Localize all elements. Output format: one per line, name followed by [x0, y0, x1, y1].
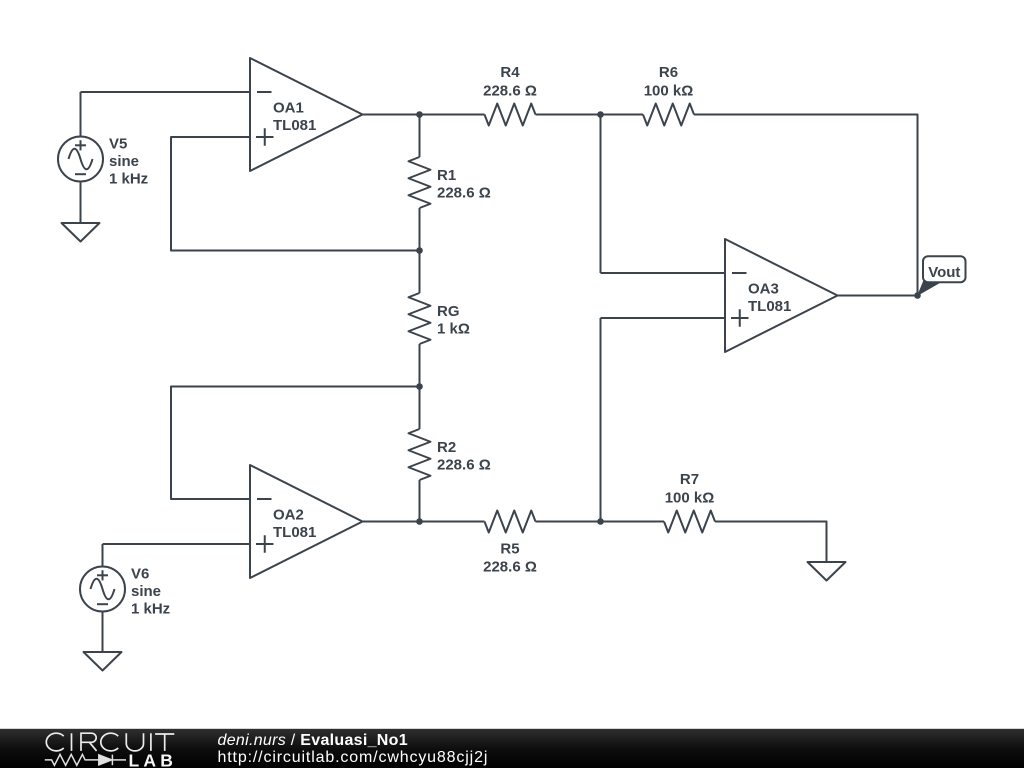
- footer bar: [0, 729, 1024, 768]
- node junction dot (Vout node): [914, 292, 921, 299]
- wire RG bottom to node: [419, 344, 421, 387]
- svg-text:100 kΩ: 100 kΩ: [665, 490, 715, 507]
- svg-text:228.6 Ω: 228.6 Ω: [437, 457, 491, 474]
- svg-text:V6: V6: [131, 566, 149, 583]
- svg-text:R6: R6: [659, 64, 678, 81]
- node junction dot (node A: OA1 out / R1 / R4): [416, 111, 423, 118]
- svg-text:R4: R4: [500, 64, 520, 81]
- wire node D to R7: [601, 521, 665, 523]
- wire OA3 inverting input: [601, 272, 726, 274]
- OA1 inverting input marker: [257, 91, 272, 93]
- op-amp OA2: [250, 465, 363, 578]
- wire R6 to Vout node: [694, 115, 918, 296]
- op-amp OA1: [250, 58, 363, 171]
- V5 label: V5 sine 1 kHz: [109, 136, 148, 188]
- node junction dot (RG / R2 junction): [416, 383, 423, 390]
- wire OA2 feedback to RG/R2 node: [171, 387, 420, 500]
- CircuitLab logo: resistor-diode squiggle: [45, 754, 126, 765]
- wire RG/R2 node to R2 top: [419, 387, 421, 430]
- wire OA3 non-inverting input: [601, 317, 726, 319]
- OA2 non-inverting input marker: [256, 535, 274, 553]
- svg-text:R2: R2: [437, 439, 456, 456]
- wire OA3 output to Vout node: [838, 295, 918, 297]
- node junction dot (R1 / RG junction): [416, 247, 423, 254]
- wire OA3 non-inverting down to node D: [600, 318, 602, 522]
- wire V6 bottom lead to ground: [102, 612, 104, 653]
- svg-text:228.6 Ω: 228.6 Ω: [483, 83, 537, 100]
- wire V5 to OA1 inverting input: [81, 91, 251, 93]
- svg-text:TL081: TL081: [273, 117, 316, 134]
- voltage source V5 (sine): [58, 137, 103, 182]
- ground (V6): [84, 652, 122, 671]
- node junction dot (node C: OA2 out / R2 / R5): [416, 518, 423, 525]
- svg-text:100 kΩ: 100 kΩ: [644, 83, 694, 100]
- resistor R5: [485, 511, 536, 533]
- wire R5 to node D: [536, 521, 601, 523]
- svg-text:R1: R1: [437, 167, 456, 184]
- svg-text:sine: sine: [109, 153, 139, 170]
- voltage source V6 (sine): [80, 567, 125, 612]
- svg-text:V5: V5: [109, 136, 127, 153]
- wire node A to R1 top: [419, 115, 421, 158]
- wire V6 to OA2 non-inverting input: [103, 543, 251, 545]
- resistor R6: [643, 104, 694, 126]
- wire OA1 output: [363, 114, 420, 116]
- node junction dot (node D: R5 / R7 / OA3 non-inv): [597, 518, 604, 525]
- wire node C to R5: [420, 521, 485, 523]
- wire R7 to ground: [715, 522, 827, 563]
- svg-text:Vout: Vout: [928, 264, 960, 281]
- wire V6 top lead: [102, 544, 104, 567]
- svg-text:LAB: LAB: [129, 751, 178, 768]
- resistor R2: [409, 429, 431, 480]
- resistor R4: [485, 104, 536, 126]
- svg-text:http://circuitlab.com/cwhcyu88: http://circuitlab.com/cwhcyu88cjj2j: [218, 749, 489, 766]
- OA1 non-inverting input marker: [256, 128, 274, 146]
- svg-text:228.6 Ω: 228.6 Ω: [483, 559, 537, 576]
- ground (R7): [808, 562, 846, 581]
- wire OA1 feedback to R1/RG node: [171, 137, 420, 251]
- OA2 inverting input marker: [257, 498, 272, 500]
- wire R1/RG node to RG top: [419, 251, 421, 294]
- wire node A to R4: [420, 114, 485, 116]
- svg-text:OA3: OA3: [748, 281, 779, 298]
- svg-text:R7: R7: [680, 471, 699, 488]
- svg-text:R5: R5: [500, 541, 519, 558]
- resistor R1: [409, 157, 431, 208]
- svg-text:228.6 Ω: 228.6 Ω: [437, 185, 491, 202]
- svg-text:sine: sine: [131, 583, 161, 600]
- svg-text:1 kHz: 1 kHz: [109, 171, 148, 188]
- wire R2 bottom to node: [419, 480, 421, 522]
- svg-text:deni.nurs / Evaluasi_No1: deni.nurs / Evaluasi_No1: [218, 732, 408, 749]
- net flag Vout: [918, 256, 966, 295]
- wire V5 bottom lead to ground: [80, 182, 82, 224]
- resistor R7: [664, 511, 715, 533]
- OA3 inverting input marker: [732, 272, 747, 274]
- svg-text:1 kHz: 1 kHz: [131, 601, 170, 618]
- svg-text:TL081: TL081: [273, 524, 316, 541]
- wire node B down to OA3 inverting input: [600, 115, 602, 274]
- resistor RG: [409, 293, 431, 344]
- CircuitLab logo: CIRCUIT wordmark: [46, 733, 174, 751]
- wire node B to R6: [601, 114, 644, 116]
- ground (V5): [62, 223, 100, 242]
- node junction dot (node B: R4 / R6 / OA3 inv): [597, 111, 604, 118]
- wire OA2 output: [363, 521, 420, 523]
- svg-text:OA1: OA1: [273, 100, 304, 117]
- wire R4 to node B: [536, 114, 601, 116]
- wire V5 top lead: [80, 92, 82, 137]
- svg-text:1 kΩ: 1 kΩ: [437, 321, 470, 338]
- op-amp OA3: [725, 239, 838, 352]
- svg-text:OA2: OA2: [273, 507, 304, 524]
- V6 label: V6 sine 1 kHz: [131, 566, 170, 618]
- OA3 non-inverting input marker: [731, 309, 749, 327]
- svg-text:TL081: TL081: [748, 298, 791, 315]
- wire R1 bottom to node: [419, 208, 421, 251]
- svg-text:RG: RG: [437, 303, 460, 320]
